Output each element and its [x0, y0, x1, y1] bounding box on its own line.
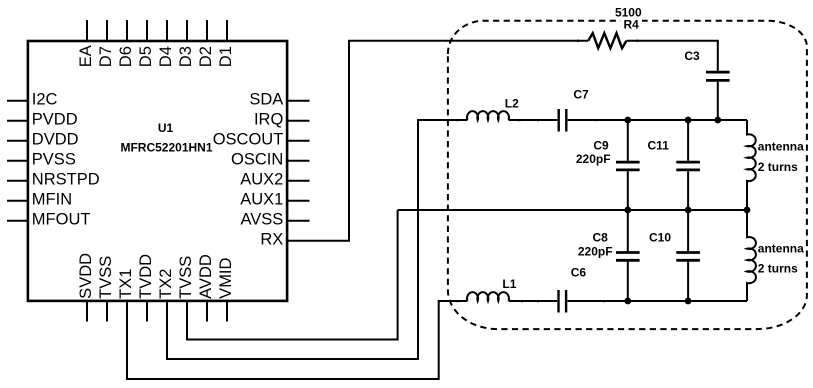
capacitor C10	[676, 253, 700, 261]
svg-text:2 turns: 2 turns	[758, 160, 798, 174]
svg-text:C8: C8	[593, 230, 609, 244]
svg-text:TX1: TX1	[117, 269, 135, 299]
wire TX2 route	[167, 120, 467, 359]
capacitor C7	[559, 109, 567, 132]
wire RX to R4	[287, 41, 588, 241]
node: row1 / C11 junction	[685, 117, 692, 124]
pin-end mark C6 right	[603, 300, 605, 302]
svg-text:RX: RX	[260, 230, 283, 248]
svg-text:D2: D2	[197, 46, 215, 67]
svg-text:PVSS: PVSS	[32, 150, 76, 168]
right pin stub OSCOUT	[287, 140, 309, 142]
svg-text:U1: U1	[158, 121, 174, 135]
bottom pin stub SVDD	[86, 301, 88, 322]
top pin stub D7	[106, 20, 108, 41]
wire TVSS route	[187, 210, 398, 340]
svg-text:MFIN: MFIN	[32, 190, 72, 208]
svg-text:EA: EA	[77, 45, 95, 67]
label R4 backing	[621, 18, 643, 30]
svg-text:AUX1: AUX1	[240, 190, 283, 208]
wire TX1 route	[127, 301, 467, 379]
top pin stub EA	[86, 20, 88, 41]
wire C3 to node	[717, 82, 719, 120]
node: middle rail / antenna junction	[744, 207, 751, 214]
pin-end mark C6 left	[537, 300, 539, 302]
svg-text:C9: C9	[593, 138, 609, 152]
wire row1 rail C7 to antenna	[568, 119, 747, 121]
svg-text:C7: C7	[573, 87, 589, 101]
bottom pin stub TVSS	[106, 301, 108, 322]
wire L2 to C7	[509, 119, 558, 121]
pin-end mark L1 left	[456, 300, 458, 302]
svg-text:OSCIN: OSCIN	[231, 150, 283, 168]
top pin stub D5	[146, 20, 148, 41]
svg-text:D4: D4	[157, 46, 175, 67]
top pin stub D4	[166, 20, 168, 41]
node: row3 / C8 junction	[624, 298, 631, 305]
svg-text:VMID: VMID	[217, 257, 235, 298]
node: middle rail / C9-C8 junction	[624, 207, 631, 214]
bottom pin stub AVDD	[206, 301, 208, 322]
svg-text:SVDD: SVDD	[77, 253, 95, 299]
top pin stub D6	[126, 20, 128, 41]
right pin stub AUX2	[287, 180, 309, 182]
right pin stub IRQ	[287, 120, 309, 122]
wire C11 to middle rail	[687, 171, 689, 251]
antenna coil 2 (2 turns)	[747, 210, 756, 301]
svg-text:220pF: 220pF	[578, 244, 613, 258]
svg-text:TVSS: TVSS	[177, 256, 195, 299]
node: row1 / C9 junction	[624, 117, 631, 124]
capacitor C3	[706, 72, 730, 80]
wire C11 column top	[687, 120, 689, 161]
capacitor C11	[676, 162, 700, 170]
wire C10 to row3	[687, 262, 689, 301]
node: middle rail / C11-C10 junction	[685, 207, 692, 214]
svg-text:AVSS: AVSS	[241, 210, 284, 228]
wire L1 to C6	[509, 300, 557, 302]
wire C9 column top	[627, 120, 629, 161]
svg-text:PVDD: PVDD	[32, 110, 78, 128]
inductor L2	[467, 111, 509, 120]
svg-text:D5: D5	[137, 46, 155, 67]
svg-text:I2C: I2C	[32, 90, 58, 108]
wire middle rail	[398, 209, 747, 211]
svg-text:L1: L1	[502, 277, 516, 291]
inductor L1	[467, 292, 509, 301]
svg-text:MFRC52201HN1: MFRC52201HN1	[120, 140, 212, 154]
left pin stub PVDD	[7, 120, 28, 122]
dashed EMC/matching boundary box	[448, 21, 807, 329]
pin-end mark L1 right	[521, 300, 523, 302]
top pin stub D1	[226, 20, 228, 41]
capacitor C9	[616, 162, 640, 170]
right pin stub SDA	[287, 100, 309, 102]
left pin stub NRSTPD	[7, 180, 28, 182]
svg-text:2 turns: 2 turns	[758, 261, 798, 275]
svg-text:D1: D1	[217, 46, 235, 67]
pin-end mark R4 left	[577, 40, 579, 42]
pin-end mark R4 right	[636, 40, 638, 42]
svg-text:IRQ: IRQ	[254, 110, 284, 128]
left pin stub I2C	[7, 100, 28, 102]
svg-text:C10: C10	[649, 230, 671, 244]
svg-text:TX2: TX2	[157, 269, 175, 299]
right pin stub AVSS	[287, 220, 309, 222]
svg-text:R4: R4	[624, 18, 640, 32]
svg-text:D6: D6	[117, 46, 135, 67]
svg-text:D3: D3	[177, 46, 195, 67]
IC U1 body	[28, 41, 287, 301]
wire row3 rail C6 to antenna	[567, 300, 747, 302]
left pin stub MFIN	[7, 200, 28, 202]
left pin stub DVDD	[7, 140, 28, 142]
wire C8 to row3	[627, 262, 629, 301]
pin-end mark C7 right	[595, 119, 597, 121]
antenna coil 1 (2 turns)	[747, 120, 756, 210]
resistor R4	[588, 33, 626, 48]
left pin stub PVSS	[7, 160, 28, 162]
svg-text:antenna: antenna	[758, 140, 804, 154]
svg-text:AUX2: AUX2	[240, 170, 283, 188]
svg-text:AVDD: AVDD	[197, 254, 215, 299]
node: row1 / C3 junction	[714, 117, 721, 124]
svg-text:C6: C6	[571, 265, 587, 279]
svg-text:OSCOUT: OSCOUT	[213, 130, 284, 148]
pin-end mark C7 left	[537, 119, 539, 121]
svg-text:NRSTPD: NRSTPD	[32, 170, 100, 188]
top pin stub D3	[186, 20, 188, 41]
svg-text:220pF: 220pF	[576, 152, 611, 166]
right pin stub OSCIN	[287, 160, 309, 162]
svg-text:antenna: antenna	[758, 242, 804, 256]
pin-end mark L2 left	[456, 119, 458, 121]
svg-text:TVSS: TVSS	[97, 256, 115, 299]
svg-text:C11: C11	[648, 138, 670, 152]
svg-text:L2: L2	[505, 96, 519, 110]
capacitor C6	[559, 290, 567, 313]
node: row3 / C10 junction	[685, 298, 692, 305]
svg-text:SDA: SDA	[249, 90, 283, 108]
right pin stub AUX1	[287, 200, 309, 202]
wire R4 to C3	[627, 41, 718, 71]
pin-end mark L2 right	[518, 119, 520, 121]
top pin stub D2	[206, 20, 208, 41]
capacitor C8	[616, 253, 640, 261]
svg-text:MFOUT: MFOUT	[32, 210, 91, 228]
wire C9 to middle rail	[627, 171, 629, 251]
svg-text:DVDD: DVDD	[32, 130, 79, 148]
left pin stub MFOUT	[7, 220, 28, 222]
svg-text:D7: D7	[97, 46, 115, 67]
svg-text:C3: C3	[684, 49, 700, 63]
bottom pin stub TVDD	[146, 301, 148, 322]
svg-text:TVDD: TVDD	[137, 254, 155, 299]
bottom pin stub VMID	[226, 301, 228, 322]
